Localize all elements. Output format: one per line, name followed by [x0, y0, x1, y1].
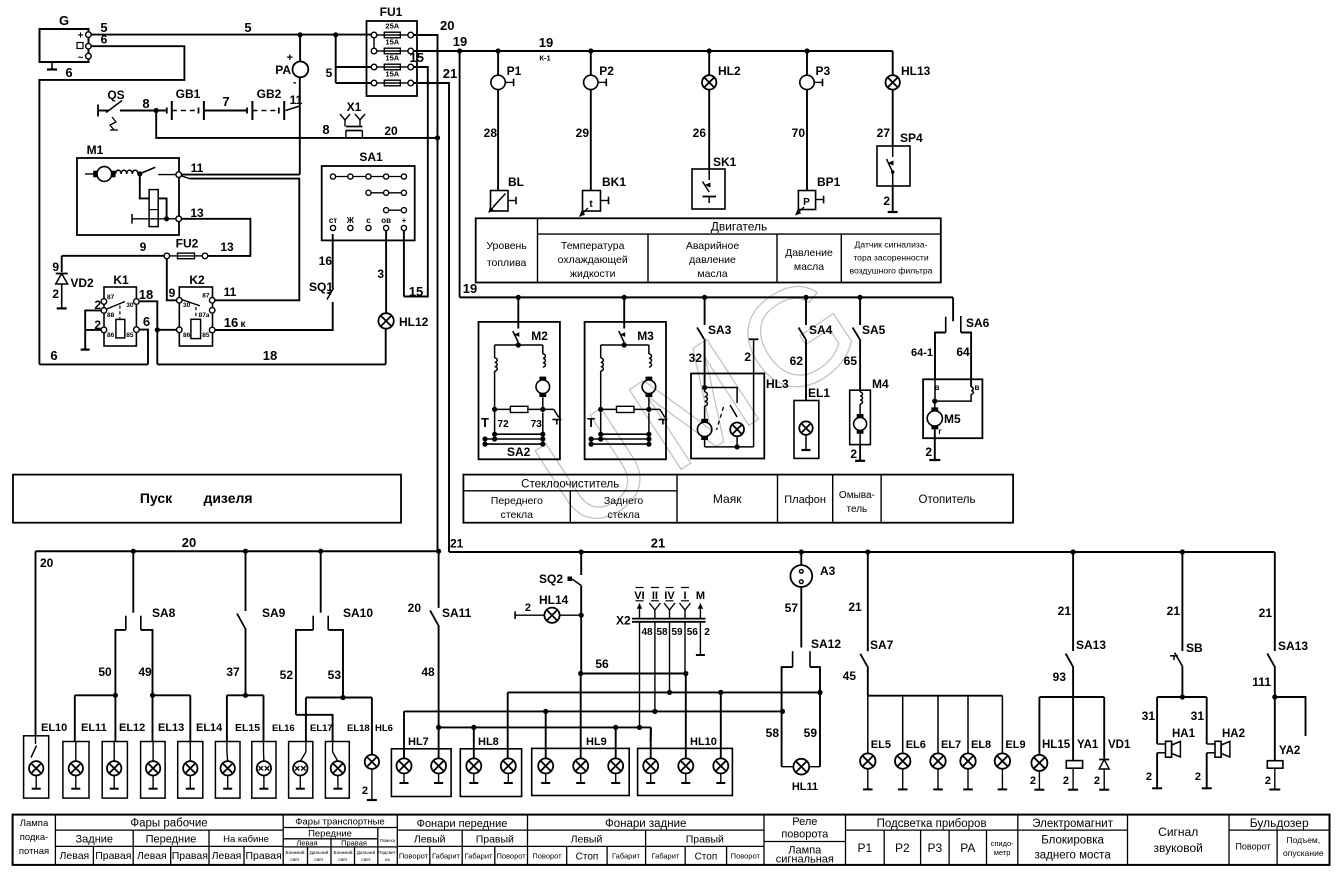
K1 pin 86 — [101, 327, 107, 333]
svg-text:Уровень: Уровень — [486, 240, 527, 252]
K2 pin 87 — [209, 298, 215, 304]
svg-text:P3: P3 — [816, 64, 831, 78]
switch SA9 — [245, 551, 247, 611]
turn relay A3 — [800, 552, 802, 566]
svg-text:охлаждающей: охлаждающей — [558, 254, 628, 266]
horn HA2 — [1206, 697, 1208, 744]
lamp HL6 — [365, 755, 379, 769]
M2 armature coil — [542, 345, 544, 354]
diode VD1 — [1103, 697, 1105, 759]
table buldozer — [1229, 829, 1330, 831]
svg-text:9: 9 — [140, 240, 147, 254]
svg-text:2: 2 — [744, 350, 751, 364]
svg-text:жидкости: жидкости — [570, 268, 616, 280]
wire HL10 turn to net 59 — [720, 692, 722, 758]
svg-text:SA4: SA4 — [809, 323, 833, 337]
svg-text:21: 21 — [1259, 606, 1273, 620]
wire 19 to SA6 — [952, 297, 954, 321]
wire 13 M1 to FU2 — [182, 219, 251, 256]
svg-text:в: в — [975, 383, 980, 392]
battery switch QS — [97, 105, 99, 117]
svg-text:тель: тель — [847, 504, 868, 515]
wire 11 lower M1 to relay K2 — [181, 176, 189, 179]
svg-text:заднего моста: заднего моста — [1034, 850, 1111, 862]
net 93 horizontal — [1039, 696, 1104, 698]
svg-text:56: 56 — [595, 657, 609, 671]
lamp HL11 — [782, 766, 794, 768]
M1 13 terminal — [131, 214, 133, 224]
M3 motor — [642, 380, 656, 394]
svg-text:HL14: HL14 — [539, 593, 569, 607]
svg-text:86: 86 — [107, 332, 115, 339]
svg-text:2: 2 — [925, 445, 932, 459]
svg-text:SA7: SA7 — [870, 638, 894, 652]
svg-text:EL9: EL9 — [1005, 739, 1025, 751]
K1 blade — [106, 302, 126, 310]
solenoid YA1 — [1066, 761, 1082, 769]
svg-text:Сигнал: Сигнал — [1158, 825, 1198, 839]
svg-text:Пуск: Пуск — [140, 490, 173, 506]
svg-text:масла: масла — [697, 268, 727, 280]
svg-text:70: 70 — [792, 126, 806, 140]
svg-text:2: 2 — [362, 785, 368, 797]
HL3 inner feed node — [704, 374, 706, 388]
svg-text:32: 32 — [689, 351, 703, 365]
svg-text:-: - — [293, 77, 297, 89]
svg-text:~: ~ — [78, 53, 84, 64]
svg-text:21: 21 — [450, 537, 464, 551]
HL7 turn lamp — [397, 758, 412, 773]
svg-text:SB: SB — [1186, 641, 1203, 655]
net 58 horizontal — [404, 710, 783, 712]
M3 field coil — [600, 345, 602, 358]
svg-text:давление: давление — [689, 254, 736, 266]
svg-text:EL6: EL6 — [906, 739, 926, 751]
svg-text:Габарит: Габарит — [432, 852, 460, 861]
caption table wiper/beacon/heater — [463, 475, 1013, 523]
net 31 horizontal — [1157, 696, 1207, 698]
table rele povorota — [764, 841, 846, 843]
svg-text:Подсвет-: Подсвет- — [378, 850, 398, 855]
HL3 motor branch — [705, 392, 708, 406]
M1 motor — [85, 173, 97, 175]
switch SA6 — [945, 317, 947, 333]
svg-text:ка: ка — [385, 857, 390, 862]
svg-text:2: 2 — [1146, 771, 1152, 783]
svg-text:поворота: поворота — [781, 829, 829, 841]
wire 2 under SP4 — [892, 186, 894, 212]
fuse FU2 — [164, 253, 170, 259]
svg-text:Подъем,: Подъем, — [1286, 835, 1320, 845]
wire 20 to lamp EL10 — [35, 551, 37, 736]
svg-text:87а: 87а — [199, 312, 210, 319]
svg-text:Ближний: Ближний — [286, 849, 305, 855]
svg-text:9: 9 — [52, 260, 59, 274]
K2 pin 85 — [209, 327, 215, 333]
M2 field coil — [494, 345, 496, 358]
svg-text:SP4: SP4 — [900, 131, 923, 145]
wire 11 upper M1 to battery line — [182, 174, 300, 176]
svg-text:Поворот: Поворот — [532, 852, 562, 861]
svg-text:EL10: EL10 — [41, 722, 67, 734]
HL3 lamp branch — [705, 388, 738, 404]
svg-text:спидо-: спидо- — [991, 839, 1015, 848]
svg-text:T: T — [481, 415, 489, 430]
panel lamp EL5 — [867, 696, 869, 754]
lamp HL14 — [514, 611, 516, 619]
svg-text:85: 85 — [202, 332, 210, 339]
K1 pin 87 — [101, 299, 107, 305]
M5 resistor coil — [971, 387, 973, 394]
svg-text:28: 28 — [484, 126, 498, 140]
svg-text:масла: масла — [794, 261, 824, 273]
ground under SP4 — [888, 211, 898, 213]
net 48 horizontal — [439, 726, 651, 728]
svg-text:BP1: BP1 — [817, 175, 841, 189]
K1 wire pin86 to ground — [85, 329, 101, 331]
HL3 chassis wire 2 — [753, 340, 755, 447]
svg-text:72: 72 — [498, 419, 510, 430]
svg-text:45: 45 — [843, 669, 857, 683]
svg-text:8: 8 — [322, 122, 329, 137]
wire HL9 marker to net 48 — [615, 728, 617, 759]
M5 left wire — [934, 379, 936, 401]
wire 70 — [806, 90, 808, 191]
svg-text:15A: 15A — [385, 70, 399, 79]
svg-text:Фонари передние: Фонари передние — [417, 818, 508, 830]
M5 ground wire 2 — [934, 430, 936, 460]
svg-text:A3: A3 — [820, 564, 836, 578]
panel lamp EL8 — [967, 696, 969, 754]
svg-text:37: 37 — [226, 665, 240, 679]
svg-text:Электромагнит: Электромагнит — [1032, 818, 1113, 830]
svg-text:SA9: SA9 — [262, 606, 286, 620]
svg-text:EL1: EL1 — [808, 386, 830, 400]
svg-text:86: 86 — [183, 332, 191, 339]
svg-text:VD2: VD2 — [70, 276, 94, 290]
lamp EL11 — [63, 742, 89, 799]
node on wire 5 at FU1 feed — [333, 32, 338, 37]
svg-text:Ж: Ж — [346, 216, 355, 225]
svg-text:дизеля: дизеля — [203, 490, 252, 506]
svg-text:Фары рабочие: Фары рабочие — [130, 818, 207, 830]
svg-text:Габарит: Габарит — [465, 852, 493, 861]
wire 6 from G middle terminal — [39, 46, 184, 364]
switch SA5 — [859, 297, 861, 325]
svg-text:50: 50 — [98, 665, 112, 679]
svg-text:59: 59 — [804, 726, 818, 740]
svg-text:20: 20 — [384, 124, 398, 138]
svg-text:Поворот: Поворот — [1235, 842, 1270, 852]
svg-text:31: 31 — [1142, 709, 1156, 723]
panel lamp EL6 — [902, 696, 904, 754]
svg-text:19: 19 — [539, 35, 553, 50]
svg-text:звуковой: звуковой — [1154, 841, 1203, 855]
svg-text:EL12: EL12 — [119, 722, 145, 734]
wire 8 QS to GB1 — [120, 110, 167, 112]
wire HL8 marker to net 48 — [473, 727, 475, 758]
svg-text:Фонари задние: Фонари задние — [605, 818, 686, 830]
svg-text:6: 6 — [101, 33, 108, 47]
svg-text:YA2: YA2 — [1279, 745, 1300, 757]
svg-text:Правый: Правый — [476, 834, 514, 846]
svg-text:метр: метр — [994, 848, 1011, 857]
svg-text:6: 6 — [50, 348, 57, 363]
svg-text:26: 26 — [693, 126, 707, 140]
M4 ground wire 2 — [859, 445, 861, 461]
temperature sensor BK1 — [583, 191, 601, 212]
caption table bottom — [13, 815, 1330, 865]
svg-text:Дальний: Дальний — [310, 849, 329, 855]
M3 armature coil — [648, 345, 650, 354]
svg-text:X2: X2 — [616, 614, 631, 628]
svg-text:воздушного фильтра: воздушного фильтра — [850, 266, 933, 276]
svg-text:20: 20 — [440, 18, 454, 33]
svg-text:Левая: Левая — [60, 850, 90, 862]
svg-text:HL13: HL13 — [901, 64, 931, 78]
svg-text:11: 11 — [224, 285, 237, 299]
switch SA13 bulldozer — [1274, 552, 1276, 651]
front light box HL7 — [391, 749, 451, 797]
svg-text:15: 15 — [409, 284, 423, 299]
svg-text:K1: K1 — [113, 273, 129, 287]
diode VD2 — [61, 256, 63, 272]
svg-text:HA2: HA2 — [1222, 728, 1245, 740]
svg-text:HL12: HL12 — [399, 315, 429, 329]
fuel level sensor BL — [491, 191, 509, 212]
svg-text:87: 87 — [107, 294, 115, 301]
M1 inductor — [116, 170, 139, 174]
svg-text:M: M — [696, 590, 705, 602]
svg-text:15A: 15A — [385, 54, 399, 63]
svg-text:PA: PA — [960, 841, 975, 855]
svg-text:M4: M4 — [872, 377, 889, 391]
wire HL9 turn to net 58 — [545, 711, 547, 758]
wire 53 to EL17 and HL6 — [306, 697, 372, 699]
node at QS output — [154, 108, 159, 113]
wire HL8 turn to net 59 — [507, 692, 509, 758]
wire PA plus — [299, 35, 301, 62]
svg-text:48: 48 — [641, 627, 653, 638]
wire 6 K1 pin85 — [139, 330, 148, 365]
svg-text:Стоп: Стоп — [576, 852, 599, 863]
svg-text:ов: ов — [381, 216, 391, 225]
svg-text:2: 2 — [704, 627, 710, 638]
trunk 19 from FU1 output 2 — [414, 50, 460, 52]
switch SA7 — [867, 552, 869, 651]
EL1 ground — [802, 449, 811, 451]
lamp HL12 — [378, 313, 393, 328]
node on trunk 20 at X1 wire — [435, 135, 440, 140]
svg-text:30: 30 — [183, 302, 191, 309]
wire 18 bottom bus segment — [157, 363, 385, 365]
svg-text:Правая: Правая — [95, 850, 131, 862]
wire HL10 marker to net 48 — [650, 728, 652, 759]
battery GB2 — [246, 108, 248, 114]
wire 11 PA to batteries and M1 — [299, 77, 301, 174]
svg-text:7: 7 — [222, 94, 229, 109]
svg-text:2: 2 — [94, 318, 101, 332]
HL7 marker lamp — [431, 758, 446, 773]
svg-text:Стеклоочиститель: Стеклоочиститель — [521, 478, 619, 490]
wire 45 distribution — [868, 695, 1003, 697]
K1 wire pin88 to ground — [85, 310, 101, 349]
wire 37 to EL15 EL16 — [227, 694, 264, 696]
svg-text:+: + — [78, 31, 84, 42]
svg-text:16: 16 — [319, 254, 333, 268]
M1 switch — [137, 171, 142, 176]
wire 9 drop to K2 pin 30 — [167, 259, 177, 301]
wire 6 bottom bus segment — [39, 363, 148, 365]
svg-text:EL17: EL17 — [310, 723, 333, 734]
svg-text:Поворот: Поворот — [399, 852, 429, 861]
dome lamp EL1 box — [794, 401, 819, 459]
front light box HL8 — [460, 749, 521, 797]
horn button SB — [1181, 552, 1183, 651]
svg-text:16: 16 — [224, 315, 238, 330]
switch SA8 — [132, 551, 134, 612]
table elektromagnit — [1018, 829, 1128, 831]
svg-text:21: 21 — [651, 536, 665, 551]
svg-text:сигнальная: сигнальная — [776, 854, 834, 866]
svg-text:PA: PA — [275, 63, 291, 77]
svg-text:Габарит: Габарит — [612, 852, 640, 861]
svg-text:Подсветка приборов: Подсветка приборов — [877, 818, 987, 830]
svg-text:53: 53 — [328, 668, 342, 682]
trunk 21 from FU1 output 4 — [414, 83, 450, 552]
wire HL7 marker feed — [438, 727, 440, 758]
lamp EL12 — [102, 742, 127, 799]
svg-text:6: 6 — [143, 314, 150, 329]
K2 coil — [191, 319, 201, 338]
svg-text:Омыва-: Омыва- — [839, 490, 875, 501]
svg-text:Правая: Правая — [341, 838, 367, 847]
trunk 15 from FU1 output 3 — [404, 67, 428, 297]
svg-text:18: 18 — [263, 348, 277, 363]
svg-text:свет: свет — [290, 857, 300, 862]
svg-text:Правая: Правая — [245, 850, 281, 862]
fuse FU1-4 15A — [371, 80, 377, 86]
svg-text:Задние: Задние — [76, 834, 114, 846]
switch SA4 — [805, 297, 807, 325]
svg-text:EL11: EL11 — [81, 722, 107, 734]
svg-text:Аварийное: Аварийное — [686, 240, 740, 252]
svg-text:Правая: Правая — [172, 850, 208, 862]
wire 9 FU2 to VD2 — [62, 255, 164, 257]
svg-text:Температура: Температура — [561, 240, 625, 252]
svg-text:K2: K2 — [189, 273, 205, 287]
svg-text:Давление: Давление — [785, 247, 833, 259]
wire HL10 stop to net 56 — [685, 675, 687, 759]
svg-text:Левая: Левая — [296, 838, 317, 847]
svg-text:HL2: HL2 — [718, 64, 741, 78]
wire HL12 to 18 bus — [385, 329, 387, 365]
SA1 contact row 1 — [333, 176, 404, 178]
svg-text:2: 2 — [1195, 771, 1201, 783]
svg-text:20: 20 — [182, 535, 196, 550]
svg-text:HL10: HL10 — [690, 736, 717, 748]
bus 21 bottom — [449, 551, 1275, 553]
node on wire 5 at PA — [298, 32, 303, 37]
svg-text:EL8: EL8 — [971, 739, 991, 751]
svg-text:Заднего: Заднего — [604, 495, 644, 507]
fuse box FU1 — [367, 21, 418, 96]
svg-text:SA6: SA6 — [966, 316, 990, 330]
svg-text:P1: P1 — [507, 64, 522, 78]
wire 16k K2 pin85 to SQ1 — [215, 302, 333, 330]
lamp EL15 — [215, 742, 240, 799]
lamp HL13 — [892, 51, 894, 75]
fuse FU1-3 15A — [371, 64, 377, 70]
SA1 contact row 2 — [369, 192, 404, 194]
svg-text:64: 64 — [956, 345, 970, 359]
svg-text:Поворот: Поворот — [496, 852, 526, 861]
M2 SA2 contact rows — [494, 409, 496, 434]
svg-text:Дальний: Дальний — [357, 849, 376, 855]
svg-text:с: с — [366, 216, 371, 225]
svg-text:GB1: GB1 — [176, 87, 201, 101]
svg-text:15: 15 — [410, 50, 424, 65]
svg-text:FU1: FU1 — [380, 5, 403, 19]
air filter sensor SP4 — [877, 146, 910, 186]
svg-text:HL8: HL8 — [478, 736, 499, 748]
gauge P2 — [590, 51, 592, 75]
net 59 horizontal — [508, 691, 820, 693]
wire 3 SA1 ov to HL12 — [385, 231, 387, 313]
svg-text:48: 48 — [421, 665, 435, 679]
svg-text:6: 6 — [65, 65, 72, 80]
svg-text:SA11: SA11 — [442, 606, 472, 620]
oil pressure sensor BP1 — [798, 191, 815, 210]
lamp EL16 — [252, 742, 276, 799]
svg-text:Реле: Реле — [792, 816, 817, 828]
svg-text:62: 62 — [790, 354, 804, 368]
svg-text:X1: X1 — [347, 100, 362, 114]
svg-text:P2: P2 — [599, 64, 614, 78]
svg-text:2: 2 — [94, 298, 101, 312]
turn switch SA12 — [792, 651, 794, 667]
svg-text:Переднего: Переднего — [491, 495, 543, 507]
svg-text:56: 56 — [687, 627, 699, 638]
engine caption table — [476, 218, 941, 282]
panel lamp EL9 — [1001, 696, 1003, 754]
svg-text:2: 2 — [1063, 775, 1069, 787]
svg-text:19: 19 — [463, 281, 477, 296]
svg-text:8: 8 — [142, 96, 149, 111]
X2 pin M ground wire 2 — [699, 622, 701, 655]
wire 5 to fuse rows 3 and 4 — [335, 35, 337, 83]
svg-text:Маяк: Маяк — [713, 492, 742, 506]
svg-text:Ближний: Ближний — [334, 849, 353, 855]
svg-text:27: 27 — [877, 126, 891, 140]
table fonari zadnie — [528, 829, 765, 831]
wire 8 battery minus loop to X1 — [156, 111, 437, 138]
wire HL7 turn to net 58 — [403, 711, 405, 758]
wire 26 — [708, 90, 710, 169]
svg-text:GB2: GB2 — [257, 87, 282, 101]
ignition switch SA1 box — [322, 166, 415, 240]
svg-text:HL3: HL3 — [766, 377, 789, 391]
wire 49 to EL13 EL14 — [153, 694, 191, 696]
svg-text:Блокировка: Блокировка — [1041, 835, 1104, 847]
svg-text:EL5: EL5 — [871, 739, 891, 751]
lamp EL17 — [289, 742, 313, 799]
lamp HL2 — [708, 51, 710, 75]
svg-text:подка-: подка- — [20, 832, 49, 843]
M3 SA2 contact rows — [600, 409, 602, 434]
switch SA13 instrument — [1072, 552, 1074, 651]
svg-text:свет: свет — [361, 857, 371, 862]
